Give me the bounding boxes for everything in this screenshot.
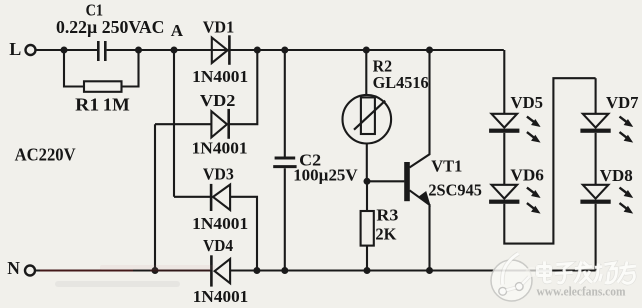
svg-text:100µ25V: 100µ25V: [293, 165, 358, 184]
diode VD2: [155, 123, 211, 125]
capacitor C1: [98, 41, 105, 61]
watermark logo circle: [491, 260, 532, 301]
wire R1 loop: [64, 50, 139, 87]
LED VD5: [492, 114, 518, 128]
wire VD2 anode to N: [154, 124, 156, 270]
node minus rail / VD3 anode junction: [253, 267, 260, 274]
svg-text:2SC945: 2SC945: [428, 180, 482, 199]
watermark char you: [618, 262, 637, 284]
svg-text:N: N: [7, 258, 20, 278]
svg-text:VD5: VD5: [511, 93, 544, 112]
wire base: [367, 180, 404, 182]
wire VD7-VD8: [595, 133, 597, 185]
watermark char dian: [538, 262, 552, 283]
watermark logo node 1: [499, 287, 507, 295]
node plus rail / R2 junction: [363, 47, 370, 54]
wire string1 bottom jog to string2 top: [504, 78, 595, 243]
svg-text:A: A: [171, 21, 184, 40]
wire VD5-VD6: [503, 133, 505, 185]
svg-text:GL4516: GL4516: [373, 73, 429, 92]
wire top rail right of C1: [107, 49, 504, 51]
capacitor C2: [284, 50, 286, 157]
svg-text:1N4001: 1N4001: [192, 214, 248, 233]
watermark logo swoosh: [502, 254, 518, 285]
LED VD7: [583, 114, 609, 128]
wire N rail red tint: [40, 270, 133, 272]
watermark logo node 2: [515, 283, 523, 291]
transistor VT1: [404, 162, 410, 201]
resistor R1: [84, 81, 122, 92]
svg-text:VD2: VD2: [200, 91, 236, 110]
LED VD6: [492, 185, 518, 199]
svg-text:1N4001: 1N4001: [193, 287, 249, 306]
svg-text:1N4001: 1N4001: [192, 67, 248, 86]
svg-text:VD4: VD4: [203, 236, 233, 255]
svg-text:1M: 1M: [103, 95, 130, 115]
node VT1 base / R2 / R3 junction: [364, 178, 371, 185]
svg-text:0.22µ 250VAC: 0.22µ 250VAC: [56, 17, 165, 37]
ghost smudge: [55, 281, 180, 287]
wire LED string 2 top: [595, 78, 597, 114]
LED VD8: [583, 185, 609, 199]
terminal N: [25, 266, 35, 276]
svg-text:www.elecfans.com: www.elecfans.com: [537, 285, 627, 299]
diode VD4: [210, 255, 213, 286]
svg-text:R3: R3: [376, 205, 398, 224]
wire VD8 cathode down: [595, 204, 597, 271]
node plus rail / C2 junction: [281, 47, 288, 54]
watermark char zi: [555, 264, 573, 283]
watermark char fa: [575, 262, 593, 284]
wire bottom rail right: [230, 269, 595, 271]
node plus rail / VD2 cathode junction: [254, 47, 261, 54]
svg-text:VD7: VD7: [606, 93, 639, 112]
node A junction: [171, 47, 178, 54]
watermark gap blob: [526, 267, 538, 277]
svg-text:L: L: [9, 39, 21, 59]
svg-text:VD3: VD3: [203, 164, 234, 183]
wire LED string 1 top: [503, 50, 505, 114]
svg-text:VD6: VD6: [510, 166, 544, 185]
terminal L: [26, 45, 36, 55]
node N / VD2 anode junction: [152, 267, 159, 274]
diode VD1: [212, 38, 228, 63]
watermark char shao: [594, 263, 617, 284]
watermark logo link lines: [506, 277, 529, 291]
wire node A vertical: [173, 50, 175, 197]
node minus rail / R3 junction: [364, 267, 371, 274]
node C1 right junction: [135, 47, 142, 54]
node C1 left junction: [61, 47, 68, 54]
svg-text:1N4001: 1N4001: [192, 139, 248, 158]
svg-text:VT1: VT1: [431, 156, 462, 175]
svg-text:AC220V: AC220V: [15, 145, 76, 165]
svg-text:VD1: VD1: [203, 18, 235, 37]
node minus rail / C2 junction: [281, 267, 288, 274]
svg-text:R1: R1: [75, 95, 99, 115]
resistor R3: [366, 181, 368, 211]
wire top rail left: [36, 49, 98, 51]
node plus rail / VT1 collector junction: [426, 47, 433, 54]
wire bottom rail left: [36, 269, 211, 271]
node minus rail / VT1 emitter junction: [426, 267, 433, 274]
svg-text:2K: 2K: [375, 224, 397, 243]
watermark elecfans: [491, 254, 538, 302]
svg-text:VD8: VD8: [600, 166, 633, 185]
diode VD3: [174, 196, 211, 198]
photoresistor R2: [365, 50, 367, 95]
